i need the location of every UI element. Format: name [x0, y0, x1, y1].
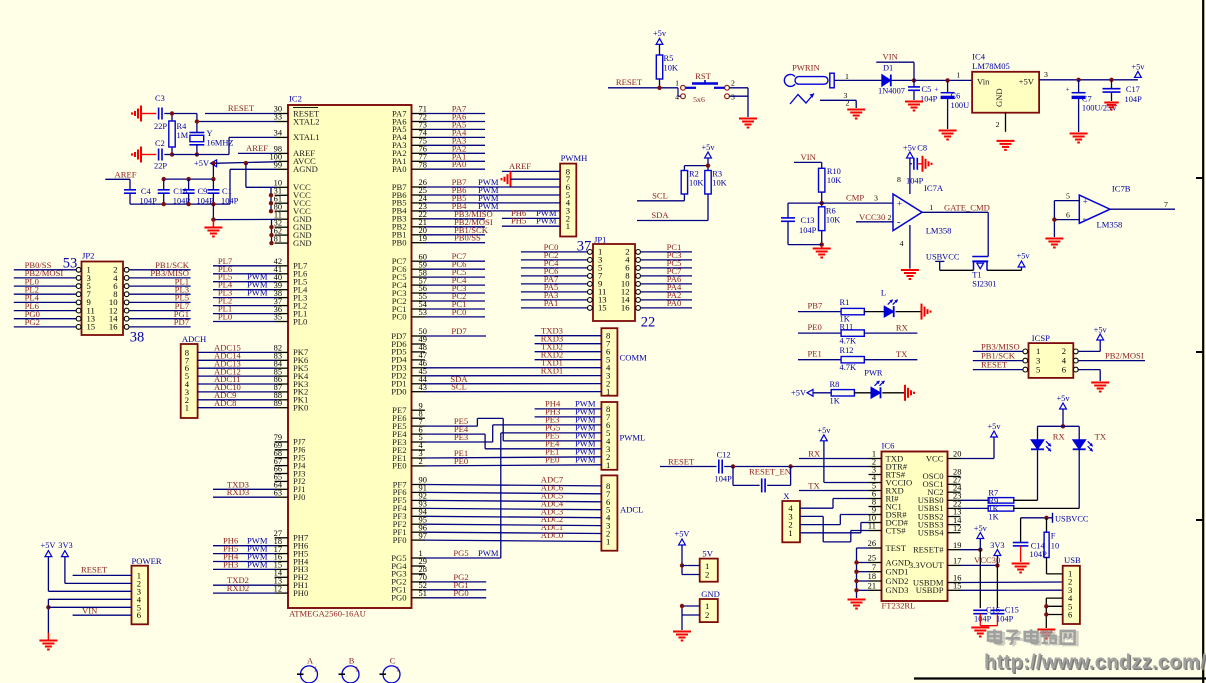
svg-text:104P: 104P — [799, 226, 817, 235]
resistor R6 10K — [819, 207, 841, 247]
wire IC7A pin4 to ground — [900, 225, 910, 269]
svg-text:2: 2 — [419, 457, 423, 466]
resistor R10 10K — [819, 167, 842, 207]
wire 3.3VOUT VCC30 to 3V3 — [961, 555, 1001, 608]
svg-text:IC7B: IC7B — [1112, 184, 1131, 194]
svg-text:GND: GND — [994, 88, 1004, 107]
wire X pin1 to IC6 DCD# — [800, 523, 869, 533]
pushbutton RST 5x6 — [675, 71, 735, 104]
wire IC4 pin2 to ground — [996, 113, 1006, 132]
svg-text:C17: C17 — [1126, 85, 1140, 94]
power port +5V at 5V connector — [675, 530, 690, 546]
svg-text:Y: Y — [207, 129, 213, 138]
mounting hole A — [297, 657, 318, 683]
wires PC7-PC0 nets — [425, 251, 486, 317]
svg-text:R2: R2 — [689, 170, 699, 179]
svg-text:3: 3 — [1044, 70, 1048, 79]
svg-text:D1: D1 — [883, 64, 893, 73]
label 37 — [577, 239, 592, 255]
svg-text:PD0: PD0 — [391, 387, 406, 397]
svg-text:2: 2 — [996, 120, 1000, 129]
capacitor C2 22P — [141, 139, 172, 171]
resistor R2 10K — [681, 170, 703, 195]
svg-text:18: 18 — [868, 572, 876, 581]
svg-text:1N4007: 1N4007 — [878, 87, 905, 96]
svg-text:15: 15 — [87, 322, 96, 332]
svg-text:R4: R4 — [177, 122, 188, 131]
svg-text:ADCL: ADCL — [620, 505, 643, 515]
svg-text:21: 21 — [868, 582, 876, 591]
svg-text:104P: 104P — [1125, 95, 1143, 104]
wire RST to ground — [729, 88, 748, 117]
svg-text:PG0: PG0 — [391, 593, 406, 603]
wire jack pin1 to diode — [834, 79, 882, 81]
capacitor C1 104P — [207, 179, 238, 206]
svg-text:1: 1 — [957, 71, 961, 80]
wire ICSP pin2 to +5v — [1078, 340, 1100, 351]
svg-text:1: 1 — [675, 78, 679, 87]
ground below C14 — [1012, 564, 1030, 573]
svg-text:5x6: 5x6 — [693, 95, 705, 104]
svg-text:3: 3 — [874, 194, 878, 203]
capacitor C12 104P — [715, 451, 733, 484]
svg-text:GND: GND — [701, 589, 720, 599]
capacitor C14 104P — [1013, 518, 1047, 562]
svg-text:C7: C7 — [1082, 95, 1092, 104]
svg-text:7: 7 — [1164, 200, 1168, 209]
capacitor C15 104P — [990, 606, 1018, 626]
svg-text:+5v: +5v — [701, 143, 715, 152]
svg-text:PWML: PWML — [620, 433, 646, 443]
wire +5v rail for leds — [1038, 409, 1080, 440]
ground below ICSP — [1091, 383, 1109, 392]
svg-text:1: 1 — [606, 460, 610, 470]
svg-text:C2: C2 — [155, 139, 165, 148]
ground below POWER — [39, 633, 57, 650]
wire AREF stub top-left — [105, 169, 136, 189]
connector ICSP body — [1023, 333, 1078, 378]
svg-text:GND: GND — [293, 238, 312, 248]
svg-text:TX: TX — [1095, 431, 1107, 441]
svg-text:XTAL2: XTAL2 — [293, 116, 320, 126]
ground below R6 C13 — [813, 246, 831, 258]
svg-text:RX: RX — [896, 323, 909, 333]
svg-text:AREF: AREF — [509, 161, 531, 171]
svg-text:PA1: PA1 — [544, 298, 559, 308]
svg-text:PWMH: PWMH — [561, 153, 588, 163]
svg-text:-: - — [1083, 213, 1086, 224]
svg-text:R10: R10 — [827, 167, 841, 176]
svg-text:+5v: +5v — [987, 422, 1001, 431]
svg-text:5V: 5V — [702, 549, 713, 559]
svg-text:PD7: PD7 — [451, 326, 467, 336]
connector GND body — [700, 589, 720, 622]
svg-text:PWM: PWM — [478, 548, 499, 558]
wire VIN to POWER pin6 — [73, 606, 132, 616]
wire SDA net — [637, 194, 708, 221]
svg-text:SI2301: SI2301 — [972, 280, 996, 289]
svg-text:RESET: RESET — [228, 103, 255, 113]
svg-text:JP2: JP2 — [82, 250, 94, 260]
ground right of C8 — [923, 156, 932, 172]
power port +5V at POWER — [41, 541, 56, 557]
svg-text:LM78M05: LM78M05 — [972, 61, 1010, 71]
wire PB7 to R1 — [798, 301, 841, 312]
resistor R11 4.7K — [840, 323, 865, 346]
wire TX net — [864, 349, 917, 360]
svg-text:2: 2 — [888, 213, 892, 222]
wire PD7 net — [425, 326, 487, 336]
connector 5V body — [700, 549, 718, 582]
power port +5v and capacitor C8 104P — [897, 144, 927, 195]
svg-text:PB2/MOSI: PB2/MOSI — [1105, 351, 1144, 361]
svg-text:PWM: PWM — [575, 454, 596, 464]
svg-text:104P: 104P — [715, 475, 733, 484]
wire diode to IC4 Vin — [891, 71, 972, 83]
svg-text:-: - — [897, 217, 900, 228]
ground below RST — [739, 119, 757, 128]
op-amp IC7B LM358 — [1079, 184, 1130, 230]
wires PL7-PL0 nets — [213, 256, 275, 322]
connector PWML body — [601, 402, 645, 470]
wires ADC7-ADC0 to ADCL — [425, 475, 602, 542]
wire RXD3 net — [213, 487, 275, 497]
ground below IC6 — [848, 600, 866, 609]
svg-text:PF0: PF0 — [393, 535, 407, 545]
svg-text:PG0: PG0 — [453, 588, 468, 598]
capacitor C3 22P — [141, 94, 172, 131]
svg-text:R5: R5 — [664, 54, 674, 63]
capacitor C17 104P — [1103, 80, 1143, 104]
svg-text:5: 5 — [1066, 192, 1070, 201]
svg-text:1: 1 — [929, 203, 933, 212]
ground at power jack — [847, 110, 865, 119]
wire PH5 PWM to PWMH pin1 — [502, 216, 560, 227]
svg-text:POWER: POWER — [132, 556, 162, 566]
wire RESET to C12 — [660, 457, 717, 467]
crystal Y 16MHZ — [189, 129, 233, 155]
svg-text:3V3: 3V3 — [990, 541, 1004, 550]
svg-text:C13: C13 — [801, 216, 815, 225]
wire GND pins vertical tie — [269, 219, 273, 245]
wire RXD2 net — [213, 583, 275, 593]
svg-text:10K: 10K — [826, 216, 840, 225]
svg-text:TX: TX — [808, 480, 820, 490]
wire RX to IC6 TXD — [799, 448, 869, 458]
svg-text:6: 6 — [1068, 610, 1073, 620]
connector COMM body — [601, 328, 647, 396]
wire DTR# net with RESET_EN — [724, 464, 868, 468]
connector PWRIN jack — [784, 63, 849, 108]
svg-text:PE4: PE4 — [454, 424, 469, 434]
connector JP2 body — [76, 250, 129, 335]
wire PG5 stub label — [425, 548, 501, 558]
svg-text:+5V: +5V — [675, 530, 690, 539]
svg-text:PG5: PG5 — [453, 548, 468, 558]
svg-text:104P: 104P — [974, 615, 992, 624]
capacitor C16 104P — [973, 606, 1000, 626]
ground below C5 — [905, 102, 923, 111]
power port +5v at ICSP — [1094, 326, 1108, 341]
ground below C16 C15 — [971, 626, 997, 637]
svg-text:C8: C8 — [917, 144, 927, 153]
ground for C2 — [132, 147, 141, 163]
wire PE5 to PWML pin4 — [425, 416, 602, 441]
resistor R1 1K — [840, 298, 865, 323]
svg-text:104P: 104P — [906, 177, 924, 186]
svg-text:R11: R11 — [840, 323, 854, 332]
power port +5v above R2 R3 — [701, 143, 715, 158]
svg-text:R6: R6 — [826, 207, 836, 216]
capacitor C7 100U/25V electrolytic — [1065, 80, 1117, 132]
wire X pin2 to IC6 DSR# — [800, 515, 869, 525]
svg-text:PA0: PA0 — [392, 164, 407, 174]
wire TXD2 net — [213, 575, 275, 585]
svg-text:4.7K: 4.7K — [840, 337, 857, 346]
wire VIN to R10 — [794, 152, 822, 168]
svg-text:JP1: JP1 — [594, 234, 606, 244]
connector JP1 body — [588, 234, 641, 321]
svg-text:R8: R8 — [830, 380, 840, 389]
op IC2 body ATMEGA2560-16AU — [288, 94, 412, 619]
wire PE0 to R11 — [798, 322, 841, 333]
mounting hole B — [339, 657, 360, 683]
svg-text:C18: C18 — [173, 187, 187, 196]
watermark text — [984, 629, 1206, 675]
power port +5v at RESET# — [974, 524, 988, 539]
wires ICSP left nets — [973, 341, 1023, 369]
svg-text:100U: 100U — [951, 101, 970, 110]
svg-text:C1: C1 — [222, 187, 232, 196]
svg-text:C6: C6 — [951, 92, 961, 101]
ground below IC7B — [1045, 239, 1063, 248]
svg-text:R1: R1 — [840, 298, 850, 307]
svg-text:PC0: PC0 — [452, 307, 467, 317]
svg-text:PWR: PWR — [864, 369, 883, 378]
svg-text:1: 1 — [606, 537, 610, 547]
svg-text:19: 19 — [953, 541, 961, 550]
svg-text:PJ0: PJ0 — [293, 492, 305, 502]
capacitor C13 104P — [781, 203, 822, 245]
wire SCL to COMM pin1 — [425, 382, 602, 392]
wires IC7B inputs to ground — [1052, 192, 1079, 238]
power port +5v at T1 — [1017, 252, 1031, 267]
svg-text:1: 1 — [355, 666, 359, 674]
svg-text:PE0: PE0 — [545, 454, 559, 464]
svg-text:PH5: PH5 — [511, 216, 526, 226]
svg-text:TX: TX — [896, 349, 908, 359]
wire POWER pin5 — [48, 606, 131, 608]
wire IC7B output — [1110, 200, 1175, 209]
svg-text:PL0: PL0 — [218, 312, 232, 322]
svg-text:+5V: +5V — [1019, 77, 1035, 87]
svg-text:RX: RX — [1053, 431, 1066, 441]
wire PH4 PWM to PWML pin8 — [535, 398, 602, 409]
svg-text:3.3VOUT: 3.3VOUT — [909, 560, 944, 570]
svg-text:4.7K: 4.7K — [840, 363, 857, 372]
svg-text:1: 1 — [185, 403, 189, 413]
svg-text:RXD2: RXD2 — [227, 583, 249, 593]
power port 3V3 at IC6 — [990, 541, 1004, 556]
svg-text:1: 1 — [845, 72, 849, 81]
ground below IC4 — [997, 141, 1015, 150]
svg-text:PWM: PWM — [247, 559, 268, 569]
wire PG5 to PWML pin5 — [501, 422, 602, 558]
capacitor C18 104P — [158, 179, 191, 206]
svg-text:USBVCC: USBVCC — [926, 252, 960, 261]
svg-text:PB7: PB7 — [808, 301, 824, 311]
resistor R4 1M — [169, 114, 189, 155]
wire +5v to VCCIO — [824, 441, 869, 483]
svg-text:CTS#: CTS# — [886, 525, 907, 535]
svg-text:GND3: GND3 — [886, 585, 909, 595]
svg-text:VCC: VCC — [926, 453, 944, 463]
svg-text:RST: RST — [695, 71, 712, 81]
svg-text:12: 12 — [953, 524, 961, 533]
wire RESET# to +5v and C16 — [961, 539, 983, 609]
svg-text:4: 4 — [900, 239, 904, 248]
wire fuse to USB pin1 — [1047, 573, 1063, 575]
svg-text:PA0: PA0 — [452, 159, 467, 169]
resistor R8 1K — [813, 380, 854, 406]
svg-text:+5v: +5v — [653, 29, 667, 38]
svg-text:RESET: RESET — [616, 77, 643, 87]
wire XTAL2 net — [172, 114, 275, 133]
svg-text:GATE_CMD: GATE_CMD — [944, 203, 990, 213]
led TX — [1073, 431, 1107, 451]
mounting hole C — [380, 657, 401, 683]
wire VCC30 to op-amp — [856, 212, 893, 222]
resistor R7 1K — [988, 489, 1014, 506]
wires TXD3 RXD3 TXD2 RXD2 to COMM — [535, 326, 602, 360]
diode D1 1N4007 — [878, 64, 905, 96]
wire IC4 output +5v rail — [1039, 70, 1138, 82]
wires PB7-PB4 PWM to PWMH — [425, 177, 561, 211]
capacitor C4 104P — [124, 187, 157, 206]
wire GATE_CMD net — [922, 203, 990, 257]
svg-text:3: 3 — [731, 93, 735, 102]
svg-text:1: 1 — [606, 387, 610, 397]
svg-text:VIN: VIN — [801, 152, 817, 162]
svg-text:11: 11 — [868, 522, 876, 531]
svg-text:10K: 10K — [664, 64, 678, 73]
svg-text:34: 34 — [274, 129, 283, 138]
svg-text:XTAL1: XTAL1 — [293, 132, 320, 142]
svg-text:SDA: SDA — [651, 210, 669, 220]
svg-text:PL0: PL0 — [293, 316, 307, 326]
svg-text:+: + — [934, 84, 938, 93]
svg-text:IC4: IC4 — [972, 52, 986, 62]
wire USBVCC rail — [1021, 513, 1089, 524]
svg-text:PB0: PB0 — [392, 238, 407, 248]
wires TXD1 RXD1 to COMM — [425, 358, 602, 376]
svg-text:22: 22 — [641, 315, 656, 331]
wire VCC to +5v — [961, 437, 995, 459]
svg-text:22P: 22P — [154, 162, 167, 171]
svg-text:PE0: PE0 — [808, 322, 822, 332]
wire USBVCC to T1 source — [926, 252, 974, 270]
svg-text:C9: C9 — [198, 187, 208, 196]
svg-text:10K: 10K — [712, 179, 726, 188]
svg-text:PH3: PH3 — [223, 559, 238, 569]
svg-text:+5v: +5v — [1017, 252, 1031, 261]
wire VCC branch — [246, 163, 275, 187]
led PWR — [854, 369, 904, 399]
svg-text:+5v: +5v — [1056, 394, 1070, 403]
svg-text:15: 15 — [598, 303, 607, 313]
svg-text:A: A — [307, 657, 313, 666]
svg-text:TEST: TEST — [886, 543, 907, 553]
svg-text:VIN: VIN — [883, 52, 899, 62]
wire XTAL1 net — [172, 137, 275, 154]
svg-text:PK0: PK0 — [293, 403, 308, 413]
svg-text:10K: 10K — [827, 176, 841, 185]
svg-text:16: 16 — [621, 303, 630, 313]
wire AGND down to ground rail — [230, 169, 275, 204]
svg-text:COMM: COMM — [620, 353, 648, 363]
wires JP2 left side nets — [14, 260, 76, 327]
wires ADC15-ADC8 to ADCH — [198, 343, 275, 408]
svg-text:ADC8: ADC8 — [214, 398, 236, 408]
ground below USB — [1037, 630, 1055, 639]
wire CMP to op-amp — [822, 193, 893, 204]
wire AREF to pin 98 — [238, 143, 275, 153]
connector POWER body — [132, 556, 162, 625]
power port +5V at R8 — [791, 389, 813, 398]
svg-text:38: 38 — [130, 330, 145, 346]
connector ADCH body — [181, 334, 207, 418]
svg-text:PC0: PC0 — [392, 312, 407, 322]
svg-text:PG2: PG2 — [25, 317, 40, 327]
wires PH6-PH3 PWM nets — [213, 536, 275, 570]
IC2 right pins with numbers and names — [391, 105, 427, 603]
svg-text:6: 6 — [1066, 211, 1070, 220]
wire pullup top rail — [684, 158, 710, 171]
wire led RX to R7 — [1014, 449, 1038, 500]
svg-text:+5V: +5V — [791, 389, 806, 398]
svg-text:+5v: +5v — [817, 426, 831, 435]
wire PE1 to PWML pin2 — [425, 446, 602, 458]
ground below cap bank — [204, 220, 222, 237]
svg-text:1: 1 — [788, 528, 792, 538]
transistor T1 SI2301 — [972, 257, 996, 289]
svg-text:+5v: +5v — [974, 524, 988, 533]
svg-text:SCL: SCL — [652, 191, 668, 201]
svg-text:C15: C15 — [1005, 606, 1019, 615]
svg-text:20: 20 — [953, 450, 961, 459]
svg-text:104P: 104P — [996, 615, 1014, 624]
wire PE3 to PWML pin6 — [425, 414, 602, 442]
wire jack pin3 to ground — [820, 100, 856, 108]
resistor R5 10K — [656, 44, 678, 87]
resistor R12 4.7K — [840, 346, 865, 372]
wire PE1 to R12 — [798, 349, 841, 360]
wire PH3 PWM to PWML pin7 — [535, 406, 602, 417]
svg-text:ICSP: ICSP — [1032, 333, 1050, 343]
power port +5v above R5 — [653, 29, 667, 44]
wire VCC pins vertical tie — [269, 187, 273, 213]
wires JP1 right nets — [641, 242, 693, 308]
svg-text:ADC0: ADC0 — [541, 530, 563, 540]
svg-text:25: 25 — [868, 554, 876, 563]
resistor R3 10K — [705, 170, 727, 195]
wire USBDM to USB — [961, 581, 1063, 584]
wires GND connector to ground — [680, 604, 700, 630]
label 38 — [130, 330, 145, 346]
ground at PWMH pin7 — [502, 171, 561, 187]
wire RX net — [864, 323, 917, 334]
wire X pin3 to IC6 CTS# — [800, 516, 869, 542]
